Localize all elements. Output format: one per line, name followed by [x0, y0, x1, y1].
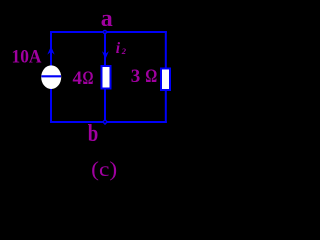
resistor R1 4-ohm	[102, 66, 111, 89]
current source IS=10A: white ellipse body with blue diameter line	[41, 65, 61, 89]
resistor R2 3-ohm	[161, 69, 170, 91]
current source arrowhead (upward)	[47, 46, 54, 54]
svg-text:3: 3	[131, 66, 141, 87]
wire bottom (node b rail)	[50, 121, 167, 123]
svg-text:(c): (c)	[91, 157, 117, 181]
svg-text:Ω: Ω	[83, 68, 94, 89]
node a junction dot	[103, 31, 106, 34]
wire middle (4-ohm branch)	[104, 32, 106, 122]
wire left (current source branch)	[50, 31, 52, 123]
svg-text:Ω: Ω	[146, 66, 158, 87]
current arrow i2 (downward) on middle branch	[102, 51, 109, 59]
svg-text:4: 4	[73, 68, 83, 89]
wire top (node a rail)	[50, 31, 167, 33]
wire right (3-ohm branch)	[165, 31, 167, 123]
svg-text:b: b	[88, 121, 99, 147]
svg-text:10A: 10A	[12, 47, 42, 68]
svg-text:a: a	[101, 6, 113, 32]
node b junction dot	[102, 119, 108, 125]
